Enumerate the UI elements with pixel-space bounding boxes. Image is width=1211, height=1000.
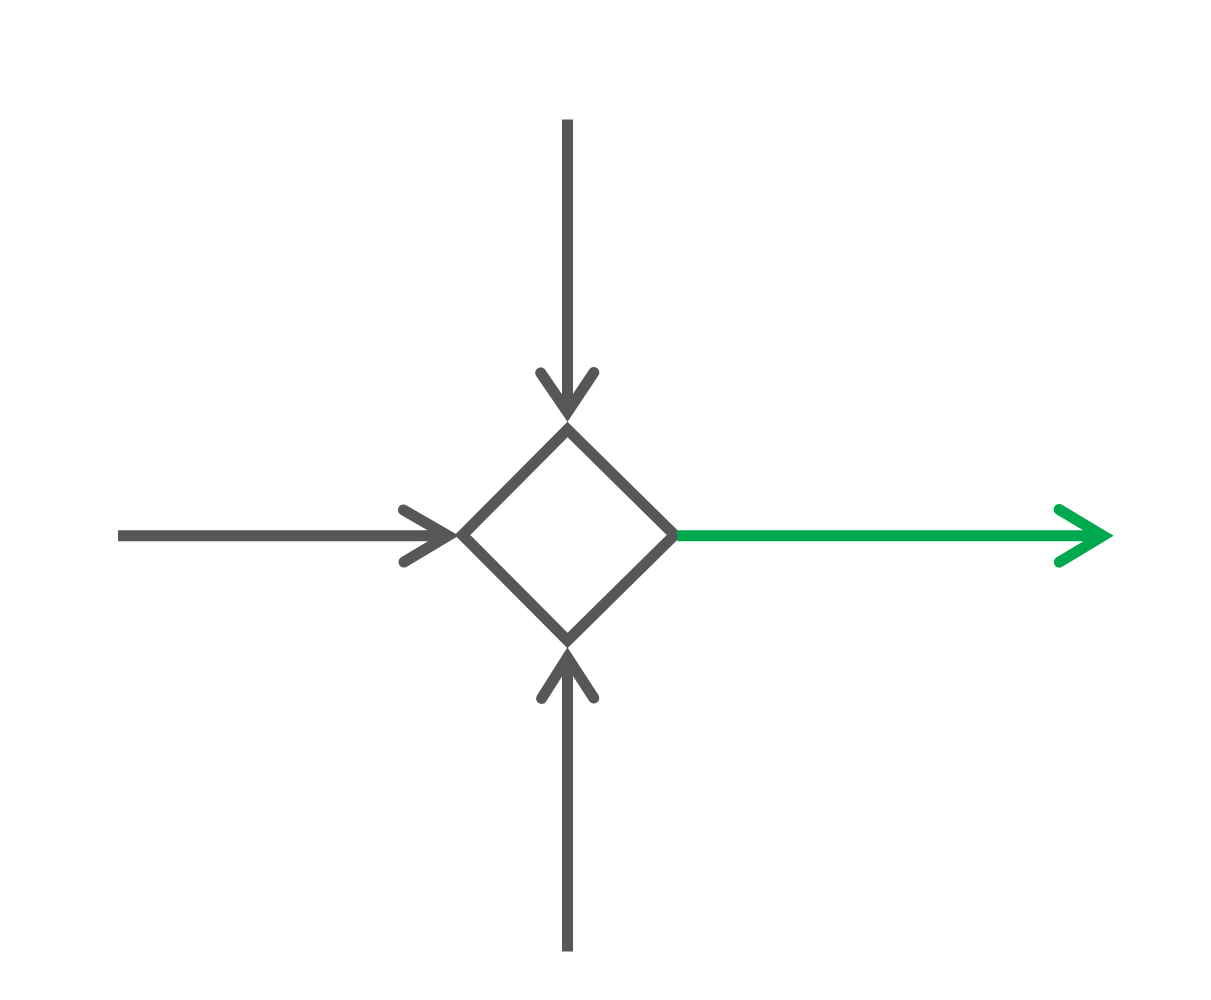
arrowhead: top input chevron	[541, 373, 594, 413]
wire: green output shaft	[677, 530, 1100, 541]
wire: left input shaft	[118, 530, 444, 541]
wire: bottom input shaft	[562, 658, 573, 952]
node: decision diamond	[463, 430, 675, 641]
wire: top input shaft	[562, 120, 573, 413]
arrowhead: left input chevron	[404, 510, 449, 562]
arrowhead: bottom input chevron	[542, 658, 594, 699]
arrowhead: green output chevron	[1059, 510, 1103, 563]
